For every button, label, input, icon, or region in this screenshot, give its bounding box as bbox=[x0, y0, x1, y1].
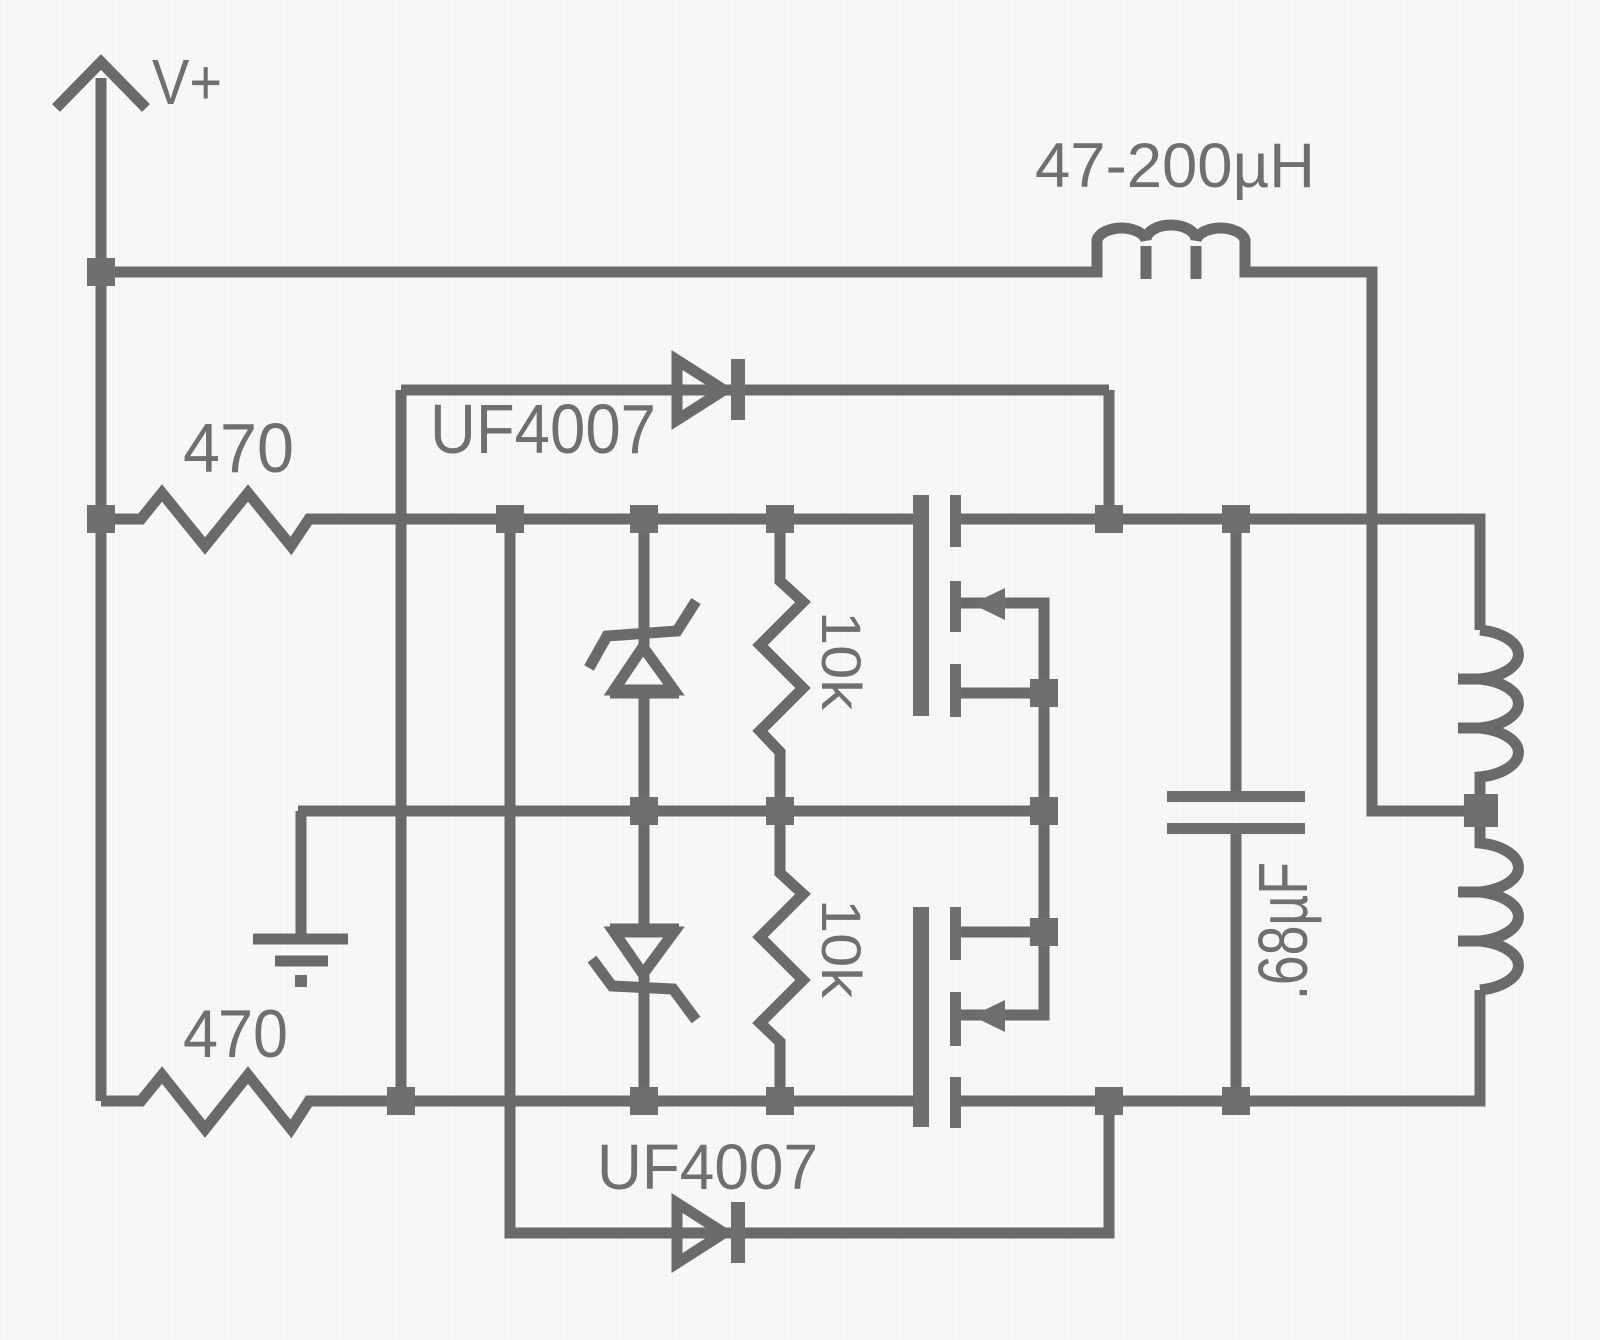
svg-text:470: 470 bbox=[183, 409, 294, 487]
svg-text:UF4007: UF4007 bbox=[597, 1131, 818, 1203]
svg-text:V+: V+ bbox=[152, 46, 222, 118]
svg-text:470: 470 bbox=[183, 996, 288, 1072]
svg-text:.68µF: .68µF bbox=[1244, 862, 1322, 1000]
svg-text:10k: 10k bbox=[810, 611, 873, 711]
svg-text:10k: 10k bbox=[810, 899, 873, 999]
svg-text:47-200µH: 47-200µH bbox=[1035, 131, 1315, 201]
svg-text:UF4007: UF4007 bbox=[430, 390, 656, 468]
